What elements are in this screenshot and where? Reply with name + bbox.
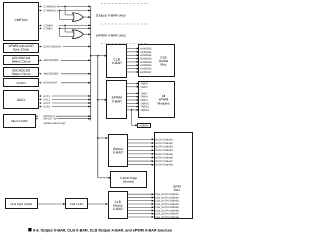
- svg-text:EXTSYNCOUT: EXTSYNCOUT: [44, 45, 62, 48]
- svg-text:Modules: Modules: [157, 101, 169, 105]
- svg-text:CLB TILEx: CLB TILEx: [70, 202, 84, 206]
- svg-text:X-BAR: X-BAR: [112, 99, 123, 103]
- svg-text:OUTPUTXBAR4: OUTPUTXBAR4: [155, 149, 173, 152]
- svg-text:X-BAR: X-BAR: [112, 61, 123, 65]
- svg-text:TRIP12: TRIP12: [140, 109, 149, 112]
- svg-text:EVT4: EVT4: [44, 105, 51, 108]
- svg-text:X-BAR: X-BAR: [113, 150, 124, 154]
- svg-text:ADCx: ADCx: [17, 98, 26, 102]
- svg-text:OUTPUTXBAR5: OUTPUTXBAR5: [155, 153, 173, 156]
- svg-text:(shared): (shared): [123, 179, 134, 183]
- svg-text:OUTPUTXBAR2: OUTPUTXBAR2: [155, 142, 173, 145]
- svg-text:eQEPs: eQEPs: [140, 123, 149, 127]
- svg-text:Sync Chain: Sync Chain: [13, 48, 30, 52]
- svg-text:OUTPUTXBAR8: OUTPUTXBAR8: [155, 164, 173, 167]
- svg-text:OUTPUTXBAR3: OUTPUTXBAR3: [155, 146, 173, 149]
- svg-text:CLB_OUTPUTXBAR8: CLB_OUTPUTXBAR8: [155, 216, 179, 219]
- svg-text:ADCSOCAO: ADCSOCAO: [44, 59, 59, 62]
- svg-text:Input X-BAR: Input X-BAR: [11, 119, 29, 123]
- svg-text:CTRIPOUTL: CTRIPOUTL: [44, 9, 59, 12]
- svg-text:Mux: Mux: [160, 62, 166, 66]
- svg-text:ECAPxOUT: ECAPxOUT: [44, 82, 58, 85]
- svg-text:Select Circuit: Select Circuit: [12, 60, 31, 64]
- svg-text:AUXSIG7: AUXSIG7: [140, 71, 152, 74]
- svg-text:6-6. Output X-BAR, CLB X-BAR,: 6-6. Output X-BAR, CLB X-BAR, CLB Output…: [33, 228, 172, 232]
- svg-text:(Output X-BAR only): (Output X-BAR only): [96, 14, 126, 18]
- svg-text:Mux: Mux: [174, 188, 180, 192]
- svg-text:(ePWM X-BAR only): (ePWM X-BAR only): [44, 122, 66, 125]
- svg-text:INPUT7-16: INPUT7-16: [44, 118, 58, 121]
- svg-text:CLB Input X-BAR: CLB Input X-BAR: [11, 202, 33, 206]
- svg-text:TRIP5: TRIP5: [140, 86, 148, 89]
- svg-text:CMPSSx: CMPSSx: [14, 18, 28, 22]
- svg-text:OUTPUTXBAR1: OUTPUTXBAR1: [155, 138, 173, 141]
- svg-text:eCAPx: eCAPx: [16, 81, 26, 85]
- svg-text:CTRIPL: CTRIPL: [44, 27, 54, 30]
- svg-text:Select Circuit: Select Circuit: [12, 72, 31, 76]
- svg-text:OUTPUTXBAR6: OUTPUTXBAR6: [155, 156, 173, 159]
- svg-text:(ePWM X-BAR only): (ePWM X-BAR only): [96, 34, 126, 38]
- svg-text:X-BAR: X-BAR: [113, 207, 123, 211]
- svg-text:CTRIPOUTH: CTRIPOUTH: [44, 5, 59, 8]
- svg-text:ADCSOCBO: ADCSOCBO: [44, 73, 59, 76]
- svg-text:OUTPUTXBAR7: OUTPUTXBAR7: [155, 160, 173, 163]
